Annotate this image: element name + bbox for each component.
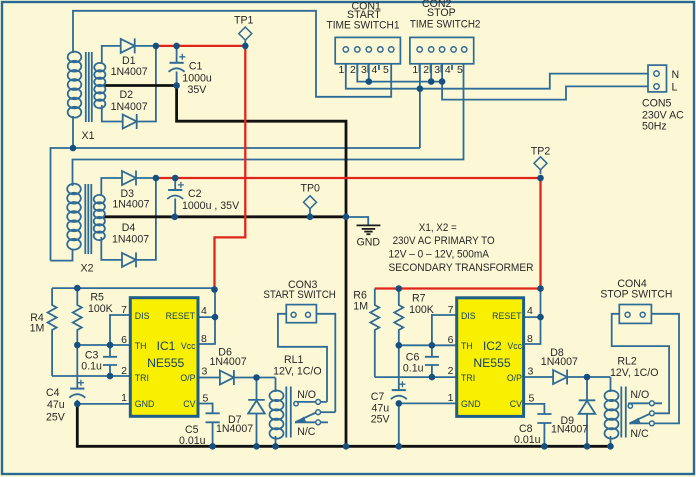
svg-text:1N4007: 1N4007 xyxy=(111,101,148,113)
svg-text:TRI: TRI xyxy=(135,373,149,383)
svg-text:1000u: 1000u xyxy=(182,73,212,85)
svg-text:N/C: N/C xyxy=(630,428,649,440)
wire CON3 right pin to pole xyxy=(316,314,335,412)
svg-text:0.01u: 0.01u xyxy=(514,434,541,446)
wire X1 secondary bottom to D2 xyxy=(102,105,123,122)
svg-text:1N4007: 1N4007 xyxy=(541,356,578,368)
relay RL2 coil xyxy=(605,391,619,439)
svg-text:STOP: STOP xyxy=(427,7,456,19)
svg-text:1: 1 xyxy=(339,64,345,76)
svg-text:1N4007: 1N4007 xyxy=(551,424,588,436)
wire X1 primary bottom lead xyxy=(72,116,74,148)
IC1 pin numbers xyxy=(121,304,208,405)
capacitor C8 0.01u xyxy=(537,414,551,423)
wire N line CON1 pin1 to CON5 N xyxy=(346,64,648,89)
wire D3 cathode to node xyxy=(136,177,156,179)
relay RL2 coil leads xyxy=(610,377,612,446)
svg-text:N/O: N/O xyxy=(297,389,316,401)
svg-text:O/P: O/P xyxy=(507,373,522,383)
wire IC1 TRI line xyxy=(52,375,130,377)
svg-text:O/P: O/P xyxy=(180,373,195,383)
svg-text:0.01u: 0.01u xyxy=(179,435,206,447)
diode D9 leads xyxy=(586,377,588,446)
svg-text:RL1: RL1 xyxy=(284,354,304,366)
diode D7 leads xyxy=(256,378,258,447)
svg-text:NE555: NE555 xyxy=(473,356,510,370)
wire IC2 TH line xyxy=(399,344,457,346)
connector CON4 box xyxy=(619,305,651,324)
RL1 contact terminals xyxy=(294,402,298,406)
svg-text:2: 2 xyxy=(448,365,454,377)
svg-text:3: 3 xyxy=(361,64,367,76)
connector CON2 box xyxy=(410,37,474,63)
wire IC2 DIS stub and C6 column xyxy=(432,315,457,377)
svg-text:1N4007: 1N4007 xyxy=(111,66,148,78)
red wire TP1 drop to IC1 supply xyxy=(215,46,246,290)
svg-text:35V: 35V xyxy=(188,84,208,96)
svg-text:CV: CV xyxy=(510,399,522,409)
svg-text:X1, X2 =: X1, X2 = xyxy=(419,222,457,234)
black wire ground bus xyxy=(77,404,610,446)
svg-text:Vcc: Vcc xyxy=(181,341,196,351)
wire CON2 pin2 xyxy=(430,64,432,82)
svg-text:8: 8 xyxy=(201,333,207,345)
svg-text:R5: R5 xyxy=(90,292,104,304)
svg-text:C7: C7 xyxy=(371,391,385,403)
svg-text:5: 5 xyxy=(203,393,209,405)
svg-text:C8: C8 xyxy=(519,423,533,435)
connector CON3 box xyxy=(286,305,316,323)
relay RL1 core xyxy=(286,387,291,438)
diode D9 1N4007 xyxy=(579,400,596,414)
wire IC1 reset vcc feed xyxy=(198,288,215,344)
svg-text:1N4007: 1N4007 xyxy=(210,356,247,368)
svg-text:C4: C4 xyxy=(46,387,60,399)
svg-text:D2: D2 xyxy=(120,89,134,101)
svg-text:1: 1 xyxy=(412,64,418,76)
svg-text:C1: C1 xyxy=(189,61,203,73)
svg-text:1M: 1M xyxy=(30,323,45,335)
svg-text:2: 2 xyxy=(121,365,127,377)
wire IC2 GND stub xyxy=(399,402,457,404)
relay RL2 armature xyxy=(630,414,651,424)
svg-text:0.1u: 0.1u xyxy=(403,363,424,375)
IC2 internal labels xyxy=(461,311,523,409)
transformer X1 primary winding xyxy=(68,52,82,118)
svg-text:7: 7 xyxy=(448,304,454,316)
svg-text:L: L xyxy=(672,82,678,94)
transformer X2 primary winding xyxy=(67,184,81,250)
wire IC1 TH line xyxy=(77,344,130,346)
wire IC2 O/P to D8 xyxy=(524,376,554,378)
wire IC2 TRI line xyxy=(375,376,457,378)
IC1 internal labels xyxy=(135,311,196,409)
wire C2 leads xyxy=(174,178,176,217)
svg-text:1: 1 xyxy=(448,392,454,404)
svg-text:4: 4 xyxy=(201,305,207,317)
capacitor C7 47u leads xyxy=(398,345,400,446)
svg-text:N/O: N/O xyxy=(630,389,649,401)
svg-text:X2: X2 xyxy=(81,263,94,275)
svg-text:TH: TH xyxy=(135,341,147,351)
svg-text:RESET: RESET xyxy=(166,311,196,321)
svg-text:N: N xyxy=(672,69,680,81)
transformer X1 core xyxy=(86,52,92,122)
svg-text:R7: R7 xyxy=(412,293,426,305)
svg-text:Vcc: Vcc xyxy=(507,341,522,351)
wire CON4 right pin to N/C xyxy=(629,314,679,424)
capacitor C2 1000u 35V xyxy=(167,182,184,199)
wire X2 primary top to CON2 pin5 xyxy=(73,64,464,186)
wire IC1 O/P to D6 xyxy=(198,377,220,379)
wire C1 leads xyxy=(176,46,178,86)
capacitor C4 47u leads xyxy=(76,345,78,404)
svg-text:3: 3 xyxy=(528,366,534,378)
svg-text:1N4007: 1N4007 xyxy=(112,234,149,246)
capacitor C3 0.1u xyxy=(103,357,117,365)
wire IC2 reset vcc feed xyxy=(524,289,541,345)
relay RL1 armature xyxy=(296,413,317,423)
diode D7 1N4007 xyxy=(248,400,265,414)
black wire X2 centre tap ground line xyxy=(104,215,346,218)
svg-text:N/C: N/C xyxy=(297,426,316,438)
svg-text:SECONDARY TRANSFORMER: SECONDARY TRANSFORMER xyxy=(389,262,534,274)
svg-text:230V AC PRIMARY TO: 230V AC PRIMARY TO xyxy=(393,235,495,247)
diode D4 1N4007 xyxy=(122,252,136,267)
svg-text:5: 5 xyxy=(457,64,463,76)
wire GND stub xyxy=(346,217,368,225)
svg-text:TIME SWITCH1: TIME SWITCH1 xyxy=(327,20,400,32)
resistor R4 1M xyxy=(48,288,57,376)
svg-text:47u: 47u xyxy=(47,399,65,411)
svg-text:8: 8 xyxy=(527,333,533,345)
svg-text:12V, 1C/O: 12V, 1C/O xyxy=(273,365,322,377)
svg-text:X1: X1 xyxy=(82,130,95,142)
diode D8 1N4007 xyxy=(553,370,567,385)
svg-text:2: 2 xyxy=(350,64,356,76)
diode D3 1N4007 xyxy=(122,171,136,186)
svg-text:DIS: DIS xyxy=(461,311,476,321)
wire C8 to ground bus xyxy=(543,423,545,446)
svg-text:100K: 100K xyxy=(88,303,113,315)
svg-text:12V, 1C/O: 12V, 1C/O xyxy=(610,367,659,379)
wire CON2 pin1 drop xyxy=(419,64,421,148)
ground symbol xyxy=(357,225,381,234)
red wire rectifier2 node to TP2 and IC2 supply xyxy=(156,178,541,289)
svg-text:5: 5 xyxy=(529,393,535,405)
capacitor C7 47u 25V xyxy=(391,381,407,399)
svg-text:TP0: TP0 xyxy=(301,182,321,194)
wire CON1 pin3 xyxy=(368,64,370,82)
test point TP1 xyxy=(239,27,252,43)
capacitor C1 1000u 35V xyxy=(169,54,186,72)
wire L bus CON1 pins 2,3 xyxy=(357,64,442,82)
svg-text:100K: 100K xyxy=(409,304,434,316)
wire C5 to ground bus xyxy=(212,422,214,446)
wire D2 cathode riser xyxy=(137,46,156,122)
svg-text:7: 7 xyxy=(121,304,127,316)
wire RL1 N/C line xyxy=(295,421,328,423)
svg-text:CV: CV xyxy=(183,399,195,409)
svg-text:TIME SWITCH2: TIME SWITCH2 xyxy=(410,18,481,30)
wire D1 cathode to node xyxy=(135,45,156,47)
wire CON2 pin3 to CON5 L xyxy=(442,64,648,100)
wire IC1 DIS stub and C3 column xyxy=(110,315,130,376)
svg-text:RL2: RL2 xyxy=(617,355,637,367)
wire N bus to transformer primaries xyxy=(51,148,420,261)
svg-text:D1: D1 xyxy=(122,55,136,67)
capacitor C5 0.01u xyxy=(206,413,220,422)
wire IC1 supply bus R4 R5 tops xyxy=(52,287,215,289)
svg-text:C5: C5 xyxy=(185,424,199,436)
wire X2 primary bottom lead xyxy=(51,249,73,261)
svg-text:CON5: CON5 xyxy=(642,98,672,110)
svg-text:50Hz: 50Hz xyxy=(642,120,667,132)
svg-text:1: 1 xyxy=(121,392,127,404)
transformer X1 secondary winding xyxy=(94,63,105,108)
svg-text:RESET: RESET xyxy=(492,311,522,321)
svg-text:TH: TH xyxy=(461,341,473,351)
relay RL2 core xyxy=(621,387,626,438)
resistor R6 1M xyxy=(370,289,379,378)
svg-text:D4: D4 xyxy=(122,222,136,234)
wire IC1 CV to C5 xyxy=(198,404,213,414)
svg-text:3: 3 xyxy=(202,366,208,378)
diode D1 1N4007 xyxy=(121,38,135,53)
IC2 NE555 body xyxy=(457,298,524,417)
wire RL1 pole line xyxy=(320,411,335,413)
svg-text:IC2: IC2 xyxy=(483,339,502,353)
wire CON4 left pin to pole xyxy=(612,314,669,414)
wire D4 cathode riser xyxy=(136,178,156,260)
svg-text:5: 5 xyxy=(383,64,389,76)
svg-text:1N4007: 1N4007 xyxy=(112,199,149,211)
svg-text:6: 6 xyxy=(448,334,454,346)
note transformer spec xyxy=(389,222,534,274)
svg-text:6: 6 xyxy=(121,334,127,346)
red wire rectifier1 node to TP1 xyxy=(156,45,245,47)
diode D6 1N4007 xyxy=(220,370,234,385)
svg-text:IC1: IC1 xyxy=(157,339,176,353)
svg-text:C2: C2 xyxy=(188,188,202,200)
diode D2 1N4007 xyxy=(123,114,137,129)
IC2 pin numbers xyxy=(448,304,535,405)
relay RL1 coil xyxy=(270,391,284,439)
svg-text:NE555: NE555 xyxy=(147,356,184,370)
svg-text:TP2: TP2 xyxy=(531,145,551,157)
svg-text:TP1: TP1 xyxy=(234,15,254,27)
wire RL2 N/O contact line xyxy=(628,402,662,404)
svg-text:1M: 1M xyxy=(353,301,368,313)
resistor R5 100K xyxy=(73,288,82,345)
IC1 NE555 body xyxy=(130,298,198,417)
svg-text:3: 3 xyxy=(434,64,440,76)
black wire C1 negative to ground trunk xyxy=(104,86,346,447)
wire D8 out node xyxy=(567,376,610,378)
wire X1 primary top to CON1 pin5 xyxy=(73,11,391,97)
transformer X2 secondary winding xyxy=(94,195,105,240)
svg-text:4: 4 xyxy=(372,64,378,76)
relay RL1 coil leads xyxy=(275,378,277,447)
svg-text:START SWITCH: START SWITCH xyxy=(263,289,336,301)
resistor R7 100K xyxy=(394,289,403,346)
wire X1 secondary top to D1 xyxy=(102,46,121,64)
svg-text:12V – 0 – 12V, 500mA: 12V – 0 – 12V, 500mA xyxy=(389,249,490,261)
wire IC2 CV to C8 xyxy=(524,404,545,414)
svg-text:TRI: TRI xyxy=(461,373,475,383)
svg-text:4: 4 xyxy=(445,64,451,76)
svg-text:4: 4 xyxy=(527,305,533,317)
svg-text:GND: GND xyxy=(461,399,481,409)
RL2 contact terminals xyxy=(628,404,632,408)
transformer X2 core xyxy=(85,184,91,254)
svg-text:25V: 25V xyxy=(371,414,391,426)
svg-text:2: 2 xyxy=(423,64,429,76)
svg-text:STOP SWITCH: STOP SWITCH xyxy=(600,289,672,301)
svg-text:25V: 25V xyxy=(46,412,66,424)
svg-text:DIS: DIS xyxy=(135,311,150,321)
wire X2 secondary top to D3 xyxy=(101,178,122,196)
capacitor C6 0.1u xyxy=(425,357,439,365)
capacitor C4 47u 25V xyxy=(69,380,85,398)
wire RL1 N/O contact line xyxy=(295,401,327,403)
svg-text:GND: GND xyxy=(357,236,381,248)
svg-text:GND: GND xyxy=(135,399,155,409)
svg-text:1N4007: 1N4007 xyxy=(216,423,253,435)
connector CON5 box xyxy=(648,65,667,92)
wire IC1 GND stub xyxy=(77,403,130,405)
wire CON3 left pin to N/O contact xyxy=(278,314,327,402)
wire X2 secondary bottom to D4 xyxy=(101,237,122,260)
test point TP0 xyxy=(304,196,317,214)
svg-text:1000u , 35V: 1000u , 35V xyxy=(182,200,240,212)
wire D6 out node xyxy=(234,377,276,379)
connector CON1 box xyxy=(335,37,400,63)
test point TP2 xyxy=(534,157,547,174)
svg-text:0.1u: 0.1u xyxy=(81,361,102,373)
